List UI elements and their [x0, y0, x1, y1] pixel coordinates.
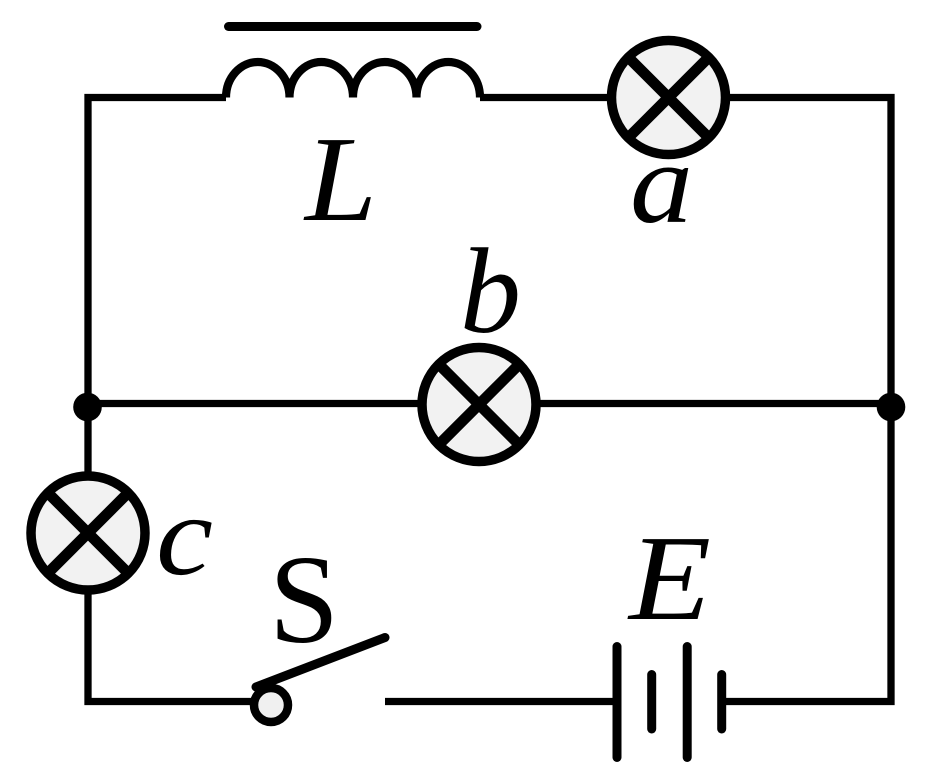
node right junction: [877, 393, 906, 422]
svg-text:a: a: [630, 120, 693, 247]
inductor L coil: [226, 62, 480, 98]
battery E plate long right: [683, 647, 692, 758]
lamp a: [612, 41, 726, 155]
battery E plate long left: [613, 647, 622, 758]
switch S pivot: [254, 688, 288, 722]
battery E plate short left: [647, 675, 656, 730]
switch S lever: [256, 638, 385, 688]
wire bottom middle segment: [385, 698, 613, 705]
svg-text:c: c: [156, 472, 213, 599]
svg-text:b: b: [460, 224, 521, 359]
svg-text:S: S: [269, 531, 339, 670]
svg-text:E: E: [627, 511, 711, 646]
wire top-right and right side: [480, 98, 891, 702]
svg-text:L: L: [303, 112, 377, 247]
inductor core bar: [229, 22, 478, 31]
battery E plate short right: [717, 675, 726, 730]
lamp b: [422, 348, 536, 462]
wire middle branch: [88, 400, 891, 407]
wire left side and top-left: [88, 98, 264, 702]
lamp c: [31, 476, 145, 590]
node left junction: [73, 393, 102, 422]
